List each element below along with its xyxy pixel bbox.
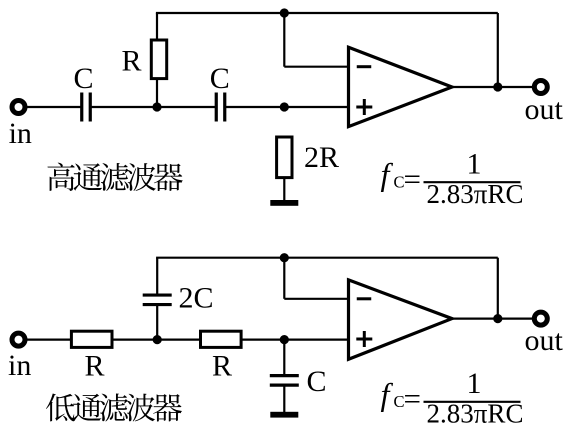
label R (R2 bottom) — [212, 350, 232, 383]
svg-text:=: = — [404, 381, 421, 416]
wire output up to feedback rail — [497, 13, 499, 87]
ground (top circuit) — [270, 200, 298, 206]
wire input to R1 — [27, 339, 72, 341]
svg-text:2C: 2C — [179, 282, 214, 315]
feedback rail (top wire) — [156, 12, 498, 14]
ground (bottom circuit) — [270, 412, 298, 418]
output junction node (bottom) — [493, 314, 502, 323]
label 低通滤波器 (low-pass filter) — [46, 393, 182, 421]
feedback junction node — [280, 8, 289, 17]
capacitor C1 — [82, 93, 91, 122]
capacitor 2C — [143, 295, 172, 305]
label in (bottom) — [8, 349, 31, 382]
svg-text:out: out — [525, 324, 564, 357]
svg-text:2R: 2R — [304, 141, 339, 174]
wire C2 to non-inverting input — [225, 106, 349, 108]
wire R2 to non-inverting input — [241, 339, 348, 341]
wire node A up to 2C — [156, 306, 158, 340]
wire node B down to cap C — [283, 340, 285, 376]
op-amp U1 non-inverting pin mark — [356, 99, 372, 115]
label C (C1) — [73, 62, 93, 95]
label 2C — [179, 282, 214, 315]
label 2R — [304, 141, 339, 174]
op-amp U2 non-inverting pin mark — [356, 331, 372, 347]
label C (bottom cap) — [307, 365, 327, 398]
op-amp U2 — [349, 280, 453, 359]
svg-text:C: C — [73, 62, 93, 95]
wire output up to feedback rail (bottom) — [497, 258, 499, 319]
label in (top) — [9, 117, 32, 150]
formula fc=1/(2.83πRC) (bottom) — [381, 367, 524, 429]
input terminal (bottom, in) — [12, 333, 25, 346]
formula fc=1/(2.83πRC) (top) — [381, 147, 524, 209]
label R (R1) — [121, 45, 141, 78]
svg-text:1: 1 — [467, 367, 482, 400]
svg-text:1: 1 — [467, 147, 482, 180]
resistor 2R — [277, 137, 292, 178]
svg-text:in: in — [9, 117, 32, 150]
feedback junction node (bottom) — [280, 253, 289, 262]
wire input to C1 — [27, 106, 82, 108]
svg-text:2.83πRC: 2.83πRC — [427, 398, 524, 428]
wire R1 top to feedback rail — [156, 13, 158, 40]
output terminal (top, out) — [534, 81, 547, 94]
svg-text:R: R — [84, 350, 104, 383]
capacitor C (bottom) — [270, 376, 299, 386]
svg-text:=: = — [404, 162, 421, 197]
op-amp U2 inverting pin mark — [357, 297, 372, 300]
node A junction (bottom) — [153, 335, 162, 344]
output terminal (bottom, out) — [534, 312, 547, 325]
svg-text:C: C — [210, 62, 230, 95]
label 高通滤波器 (high-pass filter) — [47, 163, 182, 191]
feedback rail (bottom circuit) — [156, 257, 498, 259]
node B junction — [280, 102, 289, 111]
wire feedback down to inverting input — [284, 13, 348, 67]
resistor R2 (bottom) — [201, 331, 242, 347]
svg-text:R: R — [212, 350, 232, 383]
wire cap C to ground — [283, 385, 285, 412]
wire R1 to R2 — [112, 339, 201, 341]
svg-text:2.83πRC: 2.83πRC — [427, 179, 524, 209]
output junction node — [493, 82, 502, 91]
input terminal (top, in) — [12, 101, 25, 114]
svg-text:C: C — [307, 365, 327, 398]
wire node A to R1 bottom — [156, 79, 158, 107]
label R (R1 bottom) — [84, 350, 104, 383]
label out (top) — [525, 93, 564, 126]
wire C1 to node A — [90, 106, 216, 108]
svg-text:R: R — [121, 45, 141, 78]
wire 2R to ground — [283, 178, 285, 201]
wire feedback down to inverting input (bottom) — [284, 258, 348, 299]
capacitor C2 — [216, 93, 225, 122]
resistor R1 (bottom) — [71, 331, 112, 347]
wire op-amp output — [452, 86, 533, 88]
label out (bottom) — [525, 324, 564, 357]
wire op-amp U2 output — [452, 318, 533, 320]
op-amp U1 — [349, 47, 453, 126]
svg-text:out: out — [525, 93, 564, 126]
node B junction (bottom) — [280, 335, 289, 344]
wire 2C up to feedback rail — [156, 258, 158, 296]
node A junction — [152, 102, 161, 111]
op-amp U1 inverting pin mark — [357, 65, 372, 68]
label C (C2) — [210, 62, 230, 95]
svg-text:in: in — [8, 349, 31, 382]
resistor R1 — [151, 40, 166, 79]
